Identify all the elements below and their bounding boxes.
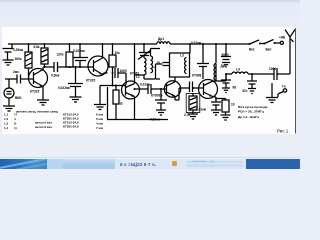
switch SA1 Вк1 bbox=[250, 40, 260, 44]
svg-text:17: 17 bbox=[14, 113, 18, 117]
choke Dr2 bbox=[215, 44, 217, 64]
ground (R6) bbox=[188, 114, 198, 119]
svg-text:КТ315: КТ315 bbox=[30, 90, 40, 94]
svg-text:КТ361-24,6: КТ361-24,6 bbox=[63, 125, 79, 129]
coupling loop and inductor L3 bbox=[170, 53, 190, 77]
svg-text:4: 4 bbox=[14, 117, 16, 121]
wire: output line bbox=[248, 73, 290, 75]
svg-text:7 мм: 7 мм bbox=[96, 126, 104, 130]
microphone BM1 bbox=[4, 88, 14, 98]
capacitor C13 6800 bbox=[221, 44, 231, 60]
svg-text:РСН = 28...37МГц: РСН = 28...37МГц bbox=[238, 110, 264, 114]
antenna W1 bbox=[285, 30, 295, 75]
svg-text:L1: L1 bbox=[136, 75, 140, 79]
svg-text:0,022мк: 0,022мк bbox=[58, 86, 70, 90]
switch SA2 Вкл bbox=[265, 40, 274, 44]
svg-text:20: 20 bbox=[157, 61, 161, 65]
capacitor C16 1000 bbox=[274, 68, 277, 80]
resistor R1 160к bbox=[25, 52, 32, 68]
page scan right border bbox=[295, 28, 297, 134]
transistor V4 КТ603Б bbox=[164, 81, 180, 97]
capacitor C7 0,01мк bbox=[135, 84, 167, 94]
capacitor C17 0,01мк bbox=[211, 102, 221, 110]
svg-text:5 мм: 5 мм bbox=[96, 117, 104, 121]
wire: tank bottom bus bbox=[135, 75, 156, 79]
svg-text:КТ315: КТ315 bbox=[86, 79, 96, 83]
ground (C8) bbox=[156, 110, 166, 115]
svg-text:Гн: Гн bbox=[282, 85, 286, 89]
choke Dr1 bbox=[157, 42, 170, 44]
ground bus bbox=[107, 119, 168, 121]
svg-text:0,01мк: 0,01мк bbox=[150, 118, 161, 122]
svg-text:0,01мк: 0,01мк bbox=[196, 108, 207, 112]
wire: rail junction dots bbox=[28, 43, 228, 45]
svg-text:0,01мк: 0,01мк bbox=[140, 83, 151, 87]
svg-text:ВМ1: ВМ1 bbox=[15, 96, 22, 100]
svg-text:Др2: Др2 bbox=[221, 64, 227, 68]
svg-text:Вк1: Вк1 bbox=[249, 48, 255, 52]
svg-text:автокм смещ, питание смещ: автокм смещ, питание смещ bbox=[16, 110, 59, 114]
svg-text:L4: L4 bbox=[236, 68, 240, 72]
ground (C17) bbox=[211, 110, 221, 115]
svg-text:4 мм: 4 мм bbox=[96, 122, 104, 126]
svg-text:Рис 1: Рис 1 bbox=[277, 129, 289, 134]
wire: V5 collector to output bbox=[216, 74, 232, 81]
svg-text:1,1: 1,1 bbox=[4, 113, 9, 117]
capacitor C3 0,5мк bbox=[54, 62, 94, 72]
note text block bbox=[238, 105, 268, 119]
ground (BM1) bbox=[3, 98, 15, 111]
svg-text:1000: 1000 bbox=[269, 67, 276, 71]
resistor R5 1к bbox=[113, 90, 119, 104]
svg-text:6,8к: 6,8к bbox=[34, 45, 40, 49]
ground (C1) bbox=[3, 60, 14, 65]
wire: V1 collector node to coupling bbox=[43, 66, 54, 68]
capacitor C5 0,022мк bbox=[68, 67, 83, 97]
svg-text:0,01мк: 0,01мк bbox=[191, 41, 202, 45]
svg-text:47н: 47н bbox=[242, 89, 248, 93]
svg-text:1,4: 1,4 bbox=[4, 126, 9, 130]
svg-text:+9В: +9В bbox=[279, 36, 286, 40]
svg-text:160к: 160к bbox=[15, 57, 22, 61]
svg-text:Вкл: Вкл bbox=[266, 48, 272, 52]
svg-text:6800: 6800 bbox=[222, 53, 229, 57]
capacitor C4 0,022мк bbox=[73, 44, 88, 67]
table of operating modes bbox=[4, 110, 104, 131]
capacitor C2 2мк bbox=[5, 75, 34, 84]
svg-text:2мк: 2мк bbox=[13, 70, 19, 74]
svg-text:68: 68 bbox=[233, 86, 237, 90]
ground (C14) bbox=[222, 83, 230, 93]
capacitor C8 0,01мк bbox=[155, 89, 167, 110]
svg-text:БА1-кусок провода: БА1-кусок провода bbox=[238, 105, 268, 109]
resistor R4 3,9к bbox=[109, 55, 116, 67]
inductor L1 bbox=[144, 58, 146, 75]
resistor R3 120к bbox=[66, 52, 73, 67]
ground (C15) bbox=[248, 84, 256, 94]
capacitor C1 0,25мк bbox=[3, 44, 14, 60]
transistor V3 КТ361 bbox=[122, 81, 140, 99]
resistor R2 6,8к bbox=[41, 48, 48, 64]
inductor L2 bbox=[151, 49, 161, 73]
svg-text:О: О bbox=[14, 122, 17, 126]
svg-text:10к: 10к bbox=[115, 51, 121, 55]
capacitor C9 bbox=[179, 82, 204, 93]
ground (V1 emitter) bbox=[37, 100, 49, 105]
svg-text:Др1: Др1 bbox=[158, 37, 164, 41]
svg-text:6 мм: 6 мм bbox=[96, 113, 104, 117]
svg-text:120к: 120к bbox=[57, 53, 64, 57]
wire: shield box left edge bbox=[107, 87, 109, 120]
svg-text:Др 1,2...3мкГн: Др 1,2...3мкГн bbox=[238, 115, 259, 119]
ground (R7) bbox=[221, 115, 231, 120]
trimmer capacitor C10 bbox=[138, 44, 151, 60]
svg-text:1к: 1к bbox=[120, 102, 124, 106]
svg-text:0,5мк: 0,5мк bbox=[51, 74, 60, 78]
svg-text:1,2: 1,2 bbox=[4, 117, 9, 121]
wire: +V supply top rail bbox=[8, 43, 250, 45]
ground (modulator) bbox=[94, 86, 106, 110]
svg-text:L3: L3 bbox=[180, 54, 184, 58]
capacitor C12 0,01мк bbox=[197, 44, 209, 79]
connector XS1 +9В bbox=[275, 42, 281, 44]
svg-text:10: 10 bbox=[231, 103, 235, 107]
svg-text:автол 9 ват.: автол 9 ват. bbox=[35, 121, 53, 125]
transistor V1 КТ315 bbox=[29, 69, 48, 88]
transistor V5 КТ608 bbox=[199, 80, 218, 99]
ground (C13) bbox=[222, 63, 230, 68]
ground (C5) bbox=[70, 97, 82, 102]
svg-text:L2: L2 bbox=[153, 65, 157, 69]
capacitor C11 20 bbox=[156, 63, 170, 80]
capacitor C14 68 bbox=[221, 74, 231, 83]
svg-text:1): 1) bbox=[14, 126, 17, 130]
svg-text:КТ603Б: КТ603Б bbox=[151, 94, 163, 98]
svg-text:1000: 1000 bbox=[120, 69, 127, 73]
capacitor C15 47 bbox=[247, 74, 257, 84]
inductor L4 bbox=[232, 72, 248, 74]
svg-text:0,25мк: 0,25мк bbox=[13, 48, 24, 52]
transistor V2 КТ315 bbox=[88, 56, 108, 76]
svg-text:0,022мк: 0,022мк bbox=[73, 49, 85, 53]
ground (Гн1) bbox=[266, 88, 278, 103]
resistor R6 2,7к bbox=[189, 96, 197, 110]
capacitor C6 1000 bbox=[115, 68, 126, 78]
svg-text:1,3: 1,3 bbox=[4, 122, 9, 126]
svg-text:КТ608: КТ608 bbox=[192, 74, 202, 78]
connector Гн1 bbox=[283, 89, 286, 92]
svg-text:2,7к: 2,7к bbox=[184, 113, 190, 117]
resistor R7 10 bbox=[216, 99, 226, 101]
svg-text:автол 9 ват.: автол 9 ват. bbox=[35, 125, 53, 129]
